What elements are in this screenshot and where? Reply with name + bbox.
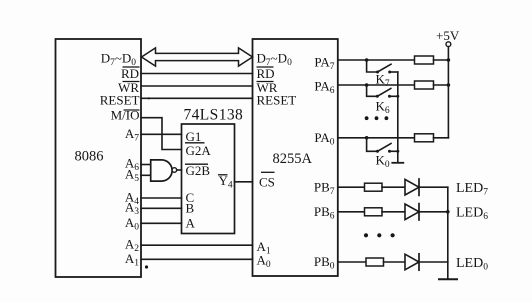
svg-text:A: A bbox=[186, 215, 196, 230]
node PA7 junction bbox=[365, 58, 369, 62]
pin label WR (8255) bbox=[257, 80, 278, 95]
pin label G1 (74LS138) bbox=[185, 129, 205, 144]
svg-text:RESET: RESET bbox=[100, 93, 140, 108]
wire resistor PB0 to diode bbox=[384, 261, 406, 263]
pin label RD (8255) bbox=[257, 66, 275, 81]
wire A4 to C bbox=[141, 197, 182, 199]
wire PB7 to resistor bbox=[338, 186, 365, 188]
switch K6 bbox=[376, 89, 400, 98]
pin label G2B (74LS138) bbox=[185, 163, 210, 178]
pin label M/IO (8086) bbox=[111, 108, 140, 123]
wire A7 to G1 bbox=[141, 133, 182, 135]
+5V rail wire bbox=[447, 47, 449, 138]
switch K7 bbox=[376, 64, 398, 73]
wire resistor PA6 to +5V rail bbox=[434, 84, 449, 86]
svg-text:B: B bbox=[186, 200, 195, 215]
svg-text:8086: 8086 bbox=[75, 149, 104, 165]
wire PB0 to resistor bbox=[338, 261, 366, 263]
resistor pull-up PA0 bbox=[415, 134, 434, 142]
resistor PB7 bbox=[365, 183, 383, 191]
ground for LEDs bbox=[439, 278, 457, 280]
+5V supply terminal bbox=[446, 42, 451, 47]
wire diode LED0 to cathode bus bbox=[419, 261, 448, 263]
resistor pull-up PA7 bbox=[415, 56, 434, 64]
NAND gate U2 body bbox=[151, 160, 172, 181]
wire resistor PA0 to +5V rail bbox=[434, 137, 449, 139]
data bus D7~D0 double arrow bbox=[142, 48, 253, 66]
junction artifact dot on RESET wire bbox=[148, 97, 150, 99]
LED cathode bus wire bbox=[447, 187, 449, 279]
resistor pull-up PA6 bbox=[415, 81, 434, 89]
svg-text:74LS138: 74LS138 bbox=[184, 107, 244, 124]
ellipsis dots PB group bbox=[364, 233, 395, 237]
NAND gate output bubble bbox=[172, 168, 177, 173]
resistor PB6 bbox=[365, 208, 383, 216]
wire PA7 to pull-up resistor bbox=[338, 59, 415, 61]
wire RESET 8086 to 8255 bbox=[141, 97, 253, 99]
wire Y4 to CS bbox=[235, 181, 253, 183]
node PA6 junction bbox=[365, 83, 369, 87]
node +5V rail at PA6 bbox=[447, 83, 451, 87]
node +5V rail at PA7 bbox=[447, 58, 451, 62]
pin label RD (8086) bbox=[121, 66, 140, 81]
pin label WR (8086) bbox=[118, 80, 139, 95]
wire resistor PB7 to diode bbox=[382, 186, 405, 188]
wire PA6 drop to switch K6 bbox=[367, 85, 378, 96]
svg-text:+5V: +5V bbox=[436, 28, 460, 43]
pin label Y4 (74LS138) bbox=[218, 173, 233, 191]
svg-text:CS: CS bbox=[259, 175, 275, 190]
8086 CPU block bbox=[56, 39, 142, 277]
diode LED6 bbox=[405, 204, 419, 220]
wire resistor PA7 to +5V rail bbox=[434, 59, 449, 61]
svg-text:G2A: G2A bbox=[186, 143, 212, 158]
wire PA7 drop to switch K7 bbox=[367, 60, 378, 72]
wire PA6 to pull-up resistor bbox=[338, 84, 415, 86]
artifact dot below A1 wire bbox=[145, 265, 148, 268]
wire RD 8086 to 8255 bbox=[141, 73, 253, 75]
switch common bus wire bbox=[397, 72, 399, 163]
diode LED7 bbox=[405, 179, 419, 195]
wire WR 8086 to 8255 bbox=[141, 85, 253, 87]
node PA0 junction bbox=[365, 136, 369, 140]
wire PA0 to pull-up resistor bbox=[338, 137, 415, 139]
wire A0 to A bbox=[141, 222, 182, 224]
diode LED0 bbox=[405, 254, 419, 270]
wire PA0 drop to switch K0 bbox=[367, 138, 378, 152]
wire A5 to NAND input 2 bbox=[141, 174, 151, 176]
svg-text:G1: G1 bbox=[186, 129, 202, 144]
wire diode LED7 to cathode bus bbox=[419, 186, 448, 188]
wire A3 to B bbox=[141, 207, 182, 209]
switch K0 bbox=[376, 144, 399, 153]
wire M/IO to G2A elbow bbox=[141, 118, 182, 150]
wire PB6 to resistor bbox=[338, 211, 365, 213]
svg-text:G2B: G2B bbox=[186, 163, 211, 178]
wire A1 to 8255 A0 bbox=[141, 258, 253, 260]
svg-text:RD: RD bbox=[257, 66, 275, 81]
wire A6 to NAND input 1 bbox=[141, 164, 151, 166]
8255A block bbox=[253, 39, 338, 276]
resistor PB0 bbox=[366, 258, 384, 266]
wire resistor PB6 to diode bbox=[382, 211, 405, 213]
node cathode bus at LED6 bbox=[446, 210, 450, 214]
ellipsis dots PA group bbox=[365, 116, 389, 120]
wire A2 to 8255 A1 bbox=[141, 244, 253, 246]
74LS138 decoder block bbox=[182, 124, 235, 234]
svg-text:RD: RD bbox=[121, 66, 139, 81]
wire diode LED6 to cathode bus bbox=[419, 211, 448, 213]
wire NAND output to G2B bbox=[177, 169, 182, 171]
ground for switches bbox=[392, 162, 403, 164]
svg-text:8255A: 8255A bbox=[273, 151, 313, 167]
svg-text:RESET: RESET bbox=[257, 93, 297, 108]
pin label CS (8255) bbox=[259, 172, 275, 189]
